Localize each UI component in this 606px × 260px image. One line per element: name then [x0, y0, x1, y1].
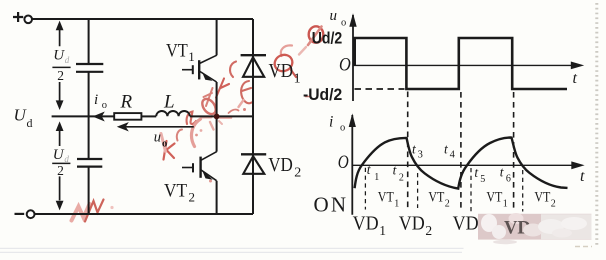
svg-text:u: u: [330, 8, 338, 24]
svg-text:VT: VT: [534, 190, 550, 206]
svg-text:VD: VD: [453, 214, 479, 235]
svg-text:VD: VD: [268, 155, 293, 176]
svg-text:VT: VT: [166, 41, 188, 62]
svg-text:3: 3: [418, 149, 423, 160]
svg-text:t: t: [580, 168, 585, 185]
svg-text:VD: VD: [353, 214, 379, 235]
svg-text:o: o: [341, 18, 346, 29]
svg-text:d: d: [64, 154, 69, 164]
svg-text:2: 2: [294, 165, 301, 180]
svg-text:2: 2: [399, 172, 404, 183]
svg-text:o: o: [102, 100, 107, 111]
svg-text:U: U: [53, 147, 65, 163]
svg-text:1: 1: [374, 172, 379, 183]
svg-text:1: 1: [294, 72, 301, 87]
svg-text:VT: VT: [378, 190, 394, 206]
svg-text:2: 2: [57, 68, 64, 83]
svg-text:u: u: [154, 130, 161, 146]
svg-text:t: t: [573, 70, 578, 87]
svg-text:1: 1: [188, 49, 195, 64]
svg-text:O: O: [338, 153, 349, 173]
svg-text:VT: VT: [486, 190, 502, 206]
svg-text:-Ud/2: -Ud/2: [303, 86, 342, 104]
svg-text:VT: VT: [164, 181, 187, 202]
svg-text:L: L: [163, 92, 175, 113]
svg-text:R: R: [120, 92, 133, 113]
svg-text:d: d: [65, 55, 70, 65]
svg-text:2: 2: [551, 199, 556, 210]
svg-text:2: 2: [425, 223, 432, 238]
svg-text:1: 1: [503, 199, 508, 210]
svg-text:U: U: [53, 48, 65, 64]
svg-text:5: 5: [480, 174, 485, 185]
svg-text:VT: VT: [428, 190, 444, 206]
svg-text:VD: VD: [399, 214, 425, 235]
svg-text:d: d: [27, 116, 33, 130]
svg-text:ON: ON: [314, 193, 349, 217]
svg-text:o: o: [340, 123, 345, 134]
svg-text:6: 6: [506, 173, 511, 184]
svg-text:Ud/2: Ud/2: [312, 30, 343, 48]
svg-text:2: 2: [189, 190, 196, 205]
svg-text:o: o: [162, 139, 167, 150]
svg-text:O: O: [339, 56, 351, 76]
svg-text:2: 2: [57, 163, 64, 178]
svg-text:VD: VD: [269, 61, 294, 82]
svg-text:i: i: [94, 92, 98, 108]
svg-text:1: 1: [394, 199, 399, 210]
svg-text:1: 1: [379, 223, 386, 238]
svg-text:i: i: [329, 113, 333, 130]
svg-text:4: 4: [450, 149, 456, 160]
svg-text:2: 2: [445, 199, 450, 210]
svg-text:U: U: [14, 106, 28, 125]
